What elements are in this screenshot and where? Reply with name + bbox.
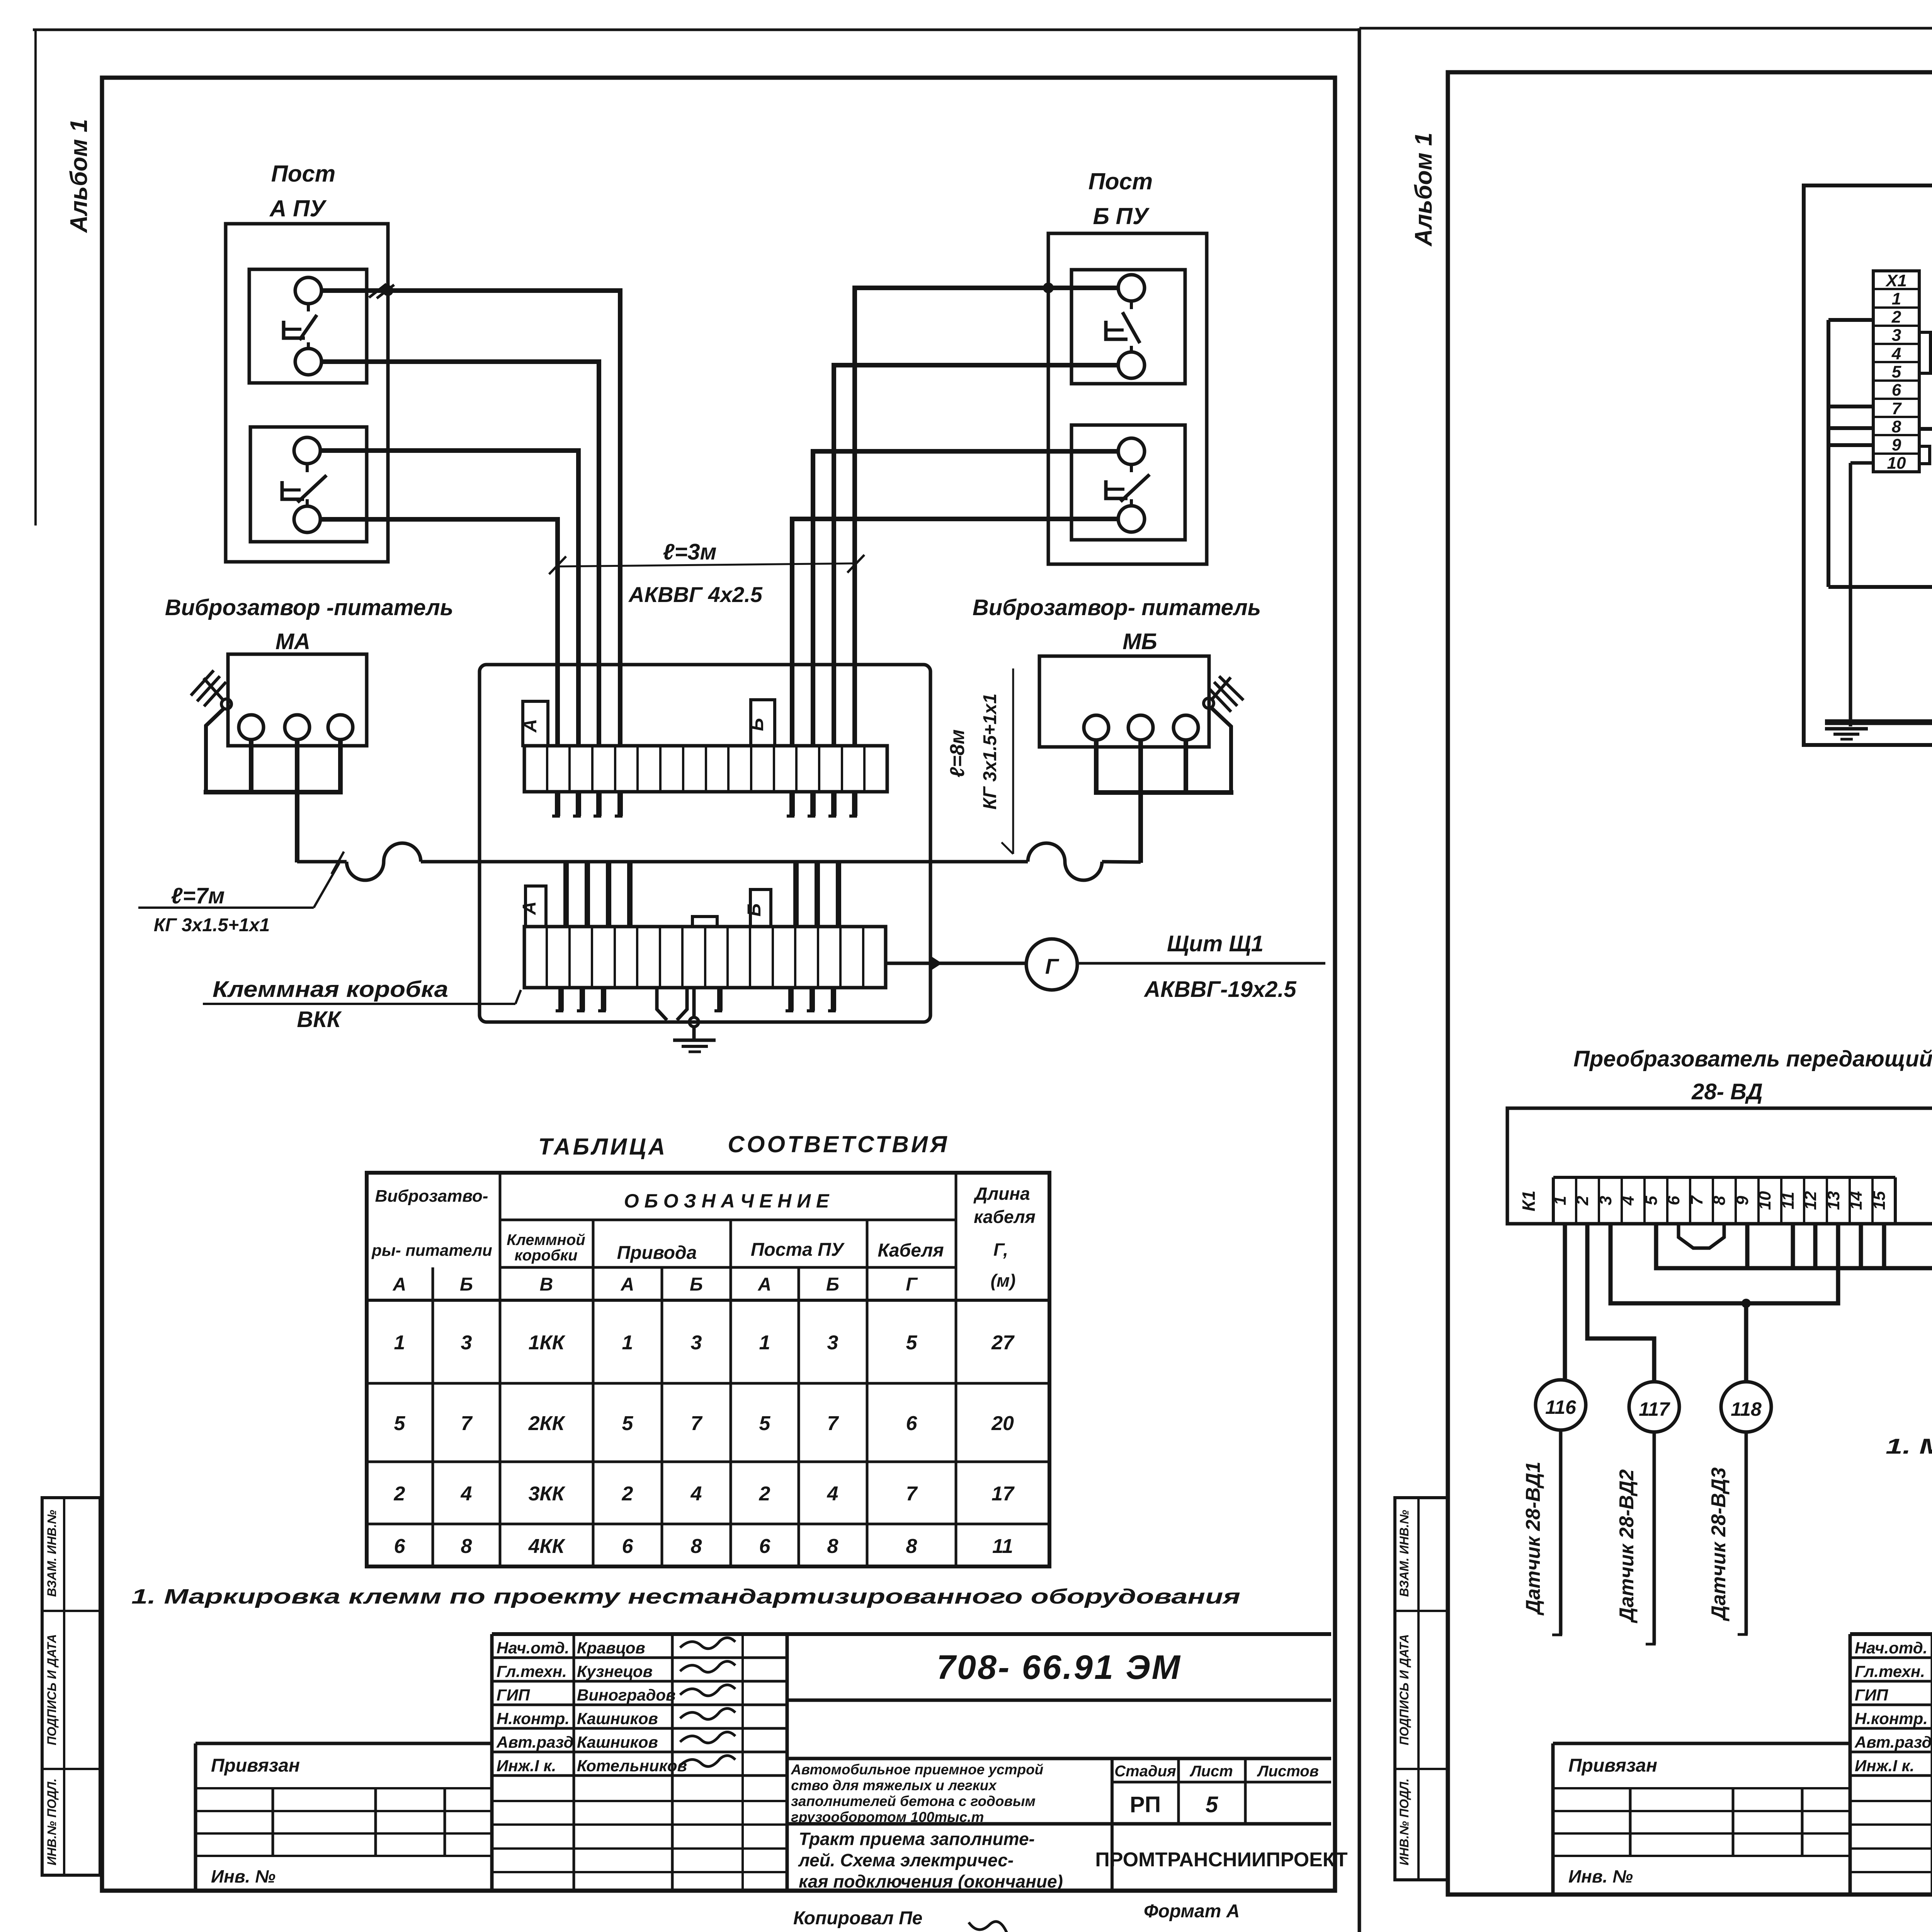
svg-text:9: 9: [1892, 435, 1901, 454]
svg-text:Стадия: Стадия: [1114, 1763, 1176, 1780]
svg-text:2: 2: [759, 1483, 770, 1505]
node : post B outer box: [1048, 233, 1207, 564]
node : title block main cells: [787, 1632, 1331, 1636]
svg-text:В: В: [540, 1274, 553, 1295]
svg-text:2: 2: [622, 1483, 633, 1505]
svg-text:АКВВГ-19х2.5: АКВВГ-19х2.5: [1143, 977, 1296, 1002]
node : junction post A box edge: [383, 285, 393, 296]
wire : post B wire 2: [834, 365, 1118, 746]
node 116 : sensor circle: [1536, 1380, 1586, 1430]
svg-text:Датчик 28-ВД2: Датчик 28-ВД2: [1616, 1469, 1638, 1624]
svg-text:Длина: Длина: [973, 1184, 1030, 1204]
svg-text:6: 6: [622, 1535, 634, 1558]
switch SB2 : post B button 2 box: [1071, 425, 1185, 540]
wire : pin2 to 117: [1587, 1224, 1654, 1382]
svg-text:Клеммной: Клеммной: [507, 1231, 585, 1248]
svg-text:Привязан: Привязан: [211, 1755, 300, 1776]
svg-text:4: 4: [461, 1483, 472, 1505]
svg-text:Гл.техн.: Гл.техн.: [1855, 1662, 1925, 1680]
svg-text:7: 7: [1892, 399, 1902, 418]
node : signatures: [680, 1638, 735, 1648]
svg-text:А: А: [519, 901, 540, 915]
svg-text:Тракт приема заполните-: Тракт приема заполните-: [799, 1829, 1035, 1849]
svg-text:Инв. №: Инв. №: [1568, 1866, 1633, 1886]
svg-text:27: 27: [991, 1332, 1015, 1354]
svg-text:10: 10: [1755, 1191, 1774, 1210]
svg-text:15: 15: [1870, 1191, 1889, 1210]
node : correspondence table grid: [367, 1173, 1049, 1566]
svg-text:5: 5: [1206, 1792, 1218, 1817]
wire : sensor 117 lead: [1653, 1432, 1656, 1644]
node : junction post B box edge: [1043, 282, 1054, 293]
svg-text:7: 7: [461, 1412, 473, 1435]
node 117 : sensor circle: [1629, 1382, 1679, 1432]
node : MB terminal 3: [1173, 715, 1198, 740]
motor MB : vibro gate feeder box: [1039, 656, 1209, 747]
node : terminal strip X1: [1873, 271, 1919, 472]
wire : pin3 and pin13 link: [1611, 1224, 1838, 1303]
svg-text:118: 118: [1731, 1398, 1762, 1420]
svg-text:ГИП: ГИП: [497, 1686, 530, 1704]
svg-text:Датчик 28-ВД3: Датчик 28-ВД3: [1708, 1468, 1730, 1622]
svg-text:5: 5: [622, 1412, 634, 1435]
svg-text:Инв. №: Инв. №: [211, 1866, 276, 1886]
node : SA1 contact top: [295, 277, 321, 304]
svg-text:ВЗАМ. ИНВ.№: ВЗАМ. ИНВ.№: [45, 1510, 59, 1597]
svg-text:Б: Б: [460, 1274, 473, 1295]
svg-text:Котельников: Котельников: [577, 1757, 687, 1775]
wire : sensor 116 lead: [1559, 1430, 1563, 1635]
svg-text:ры- питатели: ры- питатели: [371, 1241, 492, 1259]
switch SA1 : post A button 1 box: [249, 269, 367, 383]
svg-text:17: 17: [992, 1483, 1015, 1505]
svg-text:ℓ=7м: ℓ=7м: [171, 883, 225, 908]
wire : pin5 line to 115 riser: [1656, 1224, 1932, 1268]
wire : post B wire 4: [792, 519, 1118, 746]
svg-text:6: 6: [394, 1535, 406, 1558]
wire : link to 118: [1744, 1303, 1748, 1382]
svg-text:А: А: [520, 719, 541, 733]
switch SA1 : actuator symbol: [307, 304, 310, 311]
svg-text:6: 6: [1892, 381, 1901, 400]
svg-text:5: 5: [759, 1412, 771, 1435]
converter 28-VD : box: [1507, 1108, 1932, 1224]
svg-text:Привязан: Привязан: [1568, 1755, 1657, 1776]
svg-text:4КК: 4КК: [528, 1535, 566, 1558]
svg-text:Кашников: Кашников: [577, 1733, 658, 1751]
svg-text:Г: Г: [906, 1274, 918, 1295]
node : VKK lower terminal strip: [524, 927, 886, 988]
wire : ground feeder vertical: [1849, 463, 1852, 726]
wire : stub to X1 pin8: [1828, 426, 1873, 430]
svg-text:Н.контр.: Н.контр.: [497, 1709, 570, 1728]
node : SB1 contact top: [1118, 275, 1145, 301]
svg-text:5: 5: [1892, 362, 1901, 381]
svg-text:10: 10: [1887, 454, 1906, 473]
svg-text:Г: Г: [1045, 954, 1060, 978]
svg-text:ℓ=8м: ℓ=8м: [946, 730, 969, 778]
switch SB1 : actuator symbol: [1130, 301, 1133, 309]
wire : left paper edge: [34, 30, 37, 526]
svg-text:МБ: МБ: [1122, 629, 1157, 654]
svg-text:Поста ПУ: Поста ПУ: [751, 1240, 845, 1260]
node : privyazan box: [196, 1742, 492, 1745]
node : right sheet frame: [1448, 72, 1932, 1895]
wire : MB ground drop: [1211, 707, 1231, 793]
svg-text:Автомобильное приемное устрой: Автомобильное приемное устрой: [791, 1762, 1043, 1777]
wire : VKK ground stem: [692, 988, 696, 1018]
svg-text:Виброзатвор- питатель: Виброзатвор- питатель: [973, 595, 1261, 620]
svg-text:ПРОМТРАНСНИИПРОЕКТ: ПРОМТРАНСНИИПРОЕКТ: [1095, 1849, 1348, 1871]
svg-text:ПОДПИСЬ И ДАТА: ПОДПИСЬ И ДАТА: [1397, 1634, 1411, 1745]
node : SA1 contact bottom: [295, 349, 321, 375]
wire : upper strip lower fingers A: [555, 792, 560, 816]
svg-text:кая подключения (окончание): кая подключения (окончание): [799, 1871, 1063, 1891]
svg-text:Б: Б: [747, 718, 767, 731]
wire : earthing bus: [1825, 719, 1932, 725]
svg-text:20: 20: [991, 1412, 1014, 1435]
node : cable marker G circle: [1026, 939, 1077, 990]
svg-text:6: 6: [1664, 1196, 1683, 1205]
wire : post A wire 4: [320, 519, 558, 746]
svg-text:708- 66.91 ЭМ: 708- 66.91 ЭМ: [937, 1648, 1182, 1686]
wire : pin15 stub: [1882, 1224, 1886, 1268]
svg-text:1: 1: [622, 1332, 633, 1354]
svg-text:Кашников: Кашников: [577, 1709, 658, 1728]
svg-text:2: 2: [394, 1483, 405, 1505]
svg-text:АКВВГ 4х2.5: АКВВГ 4х2.5: [628, 582, 763, 607]
svg-text:заполнителей бетона с годовым: заполнителей бетона с годовым: [791, 1793, 1036, 1809]
wire : MA bottom bus: [204, 790, 343, 794]
svg-text:13: 13: [1824, 1191, 1843, 1210]
wire : MB bottom bus: [1094, 790, 1233, 795]
svg-text:Авт.разд: Авт.разд: [1854, 1733, 1932, 1751]
wire : post B wire 3: [813, 451, 1118, 746]
motor MA : vibro gate feeder box: [228, 654, 367, 746]
svg-text:7: 7: [1687, 1195, 1706, 1205]
wire : dimension line l=8m: [1012, 668, 1014, 854]
wire : X1 feeder vertical: [1827, 320, 1830, 587]
wire : MB trunk down: [1138, 793, 1143, 863]
svg-text:Кравцов: Кравцов: [577, 1639, 645, 1657]
svg-text:Б: Б: [826, 1274, 839, 1295]
svg-text:Альбом 1: Альбом 1: [1410, 133, 1437, 247]
svg-text:2КК: 2КК: [528, 1412, 566, 1435]
svg-text:Н.контр.: Н.контр.: [1855, 1709, 1928, 1728]
wire : pin14 stub: [1859, 1224, 1863, 1268]
svg-text:ℓ=3м: ℓ=3м: [663, 539, 717, 565]
svg-text:Х1: Х1: [1885, 271, 1907, 290]
svg-text:7: 7: [827, 1412, 839, 1435]
node : MA terminal 2: [285, 715, 310, 740]
svg-text:8: 8: [1892, 417, 1901, 436]
svg-text:1: 1: [394, 1332, 405, 1354]
svg-text:Лист: Лист: [1189, 1763, 1233, 1780]
svg-text:А ПУ: А ПУ: [269, 196, 327, 221]
svg-text:К1: К1: [1519, 1190, 1539, 1211]
wire : lower strip bottom finger mid: [717, 988, 723, 1011]
svg-text:А: А: [758, 1274, 772, 1295]
wire : middle scan divider: [1358, 28, 1361, 1932]
wire : MA trunk down: [295, 792, 299, 862]
svg-text:ство для тяжелых и легких: ство для тяжелых и легких: [791, 1777, 997, 1793]
node : SA2 contact top: [294, 437, 320, 464]
wire : post A wire 2: [321, 362, 599, 746]
svg-text:Формат А: Формат А: [1144, 1901, 1240, 1922]
svg-text:Виброзатво-: Виброзатво-: [375, 1187, 488, 1206]
svg-text:8: 8: [691, 1535, 702, 1558]
svg-text:Нач.отд.: Нач.отд.: [497, 1639, 569, 1657]
svg-text:Виброзатвор -питатель: Виброзатвор -питатель: [165, 595, 453, 620]
svg-text:Б: Б: [690, 1274, 703, 1295]
node : lower strip tab A: [526, 886, 546, 927]
node : title block small table: [1850, 1632, 1932, 1636]
svg-text:3: 3: [1892, 326, 1901, 345]
svg-text:ГИП: ГИП: [1855, 1686, 1888, 1704]
svg-text:Листов: Листов: [1257, 1763, 1319, 1780]
node : MA terminal 3: [328, 715, 353, 740]
svg-text:Клеммная коробка: Клеммная коробка: [213, 977, 448, 1002]
wire : lower strip upper fingers A: [563, 861, 569, 927]
svg-text:7: 7: [906, 1483, 918, 1505]
svg-text:Пост: Пост: [271, 161, 336, 187]
wire : post A wire 3: [320, 451, 578, 746]
wire : jumper pins 6-8: [1679, 1224, 1724, 1248]
svg-text:Г,: Г,: [993, 1240, 1008, 1260]
node : MB terminal 1: [1084, 715, 1109, 740]
svg-text:грузооборотом 100тыс.т: грузооборотом 100тыс.т: [791, 1809, 984, 1825]
svg-text:1. Маркировка клемм по прое: 1. Маркировка клемм по проекту нестандар…: [1886, 1434, 1932, 1458]
svg-text:(м): (м): [991, 1270, 1016, 1291]
svg-text:14: 14: [1847, 1191, 1866, 1210]
node : SB2 contact top: [1118, 438, 1145, 464]
node : upper strip tab B: [751, 700, 775, 746]
wire : pin9 stub: [1745, 1224, 1750, 1268]
svg-text:28- ВД: 28- ВД: [1691, 1079, 1763, 1104]
svg-text:коробки: коробки: [514, 1247, 577, 1264]
node : left sheet frame: [102, 78, 1335, 1891]
svg-text:КГ 3х1.5+1х1: КГ 3х1.5+1х1: [154, 915, 270, 935]
svg-text:3КК: 3КК: [529, 1483, 566, 1505]
wire : upper strip lower fingers B: [789, 792, 795, 816]
svg-text:А: А: [621, 1274, 634, 1295]
node : MB terminal 2: [1128, 715, 1153, 740]
svg-text:116: 116: [1545, 1396, 1577, 1418]
wire : horizontal link inside cabinet: [1828, 585, 1932, 589]
wire : lower strip to pilot lamp G: [886, 962, 1026, 965]
node : right margin stamp strip: [1395, 1498, 1448, 1880]
wire : lower strip fork symbol: [657, 988, 667, 1020]
svg-text:ВЗАМ. ИНВ.№: ВЗАМ. ИНВ.№: [1397, 1510, 1411, 1597]
switch SB1 : post B button 1 box: [1071, 270, 1185, 384]
svg-text:2: 2: [1573, 1196, 1592, 1206]
svg-text:ТАБЛИЦА: ТАБЛИЦА: [538, 1134, 667, 1160]
svg-text:3: 3: [827, 1332, 838, 1354]
node : VKK upper terminal strip: [524, 746, 887, 792]
wire : sensor 118 lead: [1745, 1432, 1748, 1634]
svg-text:5: 5: [394, 1412, 406, 1435]
svg-text:ИНВ.№ ПОДЛ.: ИНВ.№ ПОДЛ.: [1397, 1778, 1411, 1865]
svg-text:Пост: Пост: [1088, 168, 1153, 194]
svg-text:8: 8: [827, 1535, 838, 1558]
svg-text:ИНВ.№ ПОДЛ.: ИНВ.№ ПОДЛ.: [45, 1778, 59, 1865]
wire : post A wire 1: [321, 291, 620, 746]
wire : top scan edge right: [1359, 27, 1932, 30]
wire : X1 bracket pins 9-10: [1919, 446, 1930, 464]
wire : X1 pin8 to X2 pin5: [1919, 376, 1932, 429]
svg-text:5: 5: [1642, 1196, 1661, 1205]
node : MA terminal 1: [239, 715, 264, 740]
switch SA2 : actuator symbol: [306, 464, 309, 472]
svg-text:3: 3: [1596, 1196, 1615, 1205]
wire : VKK label underline: [203, 1003, 515, 1005]
svg-text:4: 4: [690, 1483, 702, 1505]
svg-text:Щит Щ1: Щит Щ1: [1167, 931, 1264, 956]
svg-text:1КК: 1КК: [529, 1332, 566, 1354]
node : title block small table: [492, 1632, 787, 1636]
svg-text:Альбом 1: Альбом 1: [66, 119, 92, 233]
svg-text:РП: РП: [1130, 1792, 1161, 1817]
node 118 : sensor circle: [1721, 1382, 1771, 1432]
node : post A outer box: [226, 224, 388, 562]
svg-text:8: 8: [461, 1535, 472, 1558]
wire : underline and leader l=7m: [138, 906, 314, 909]
wire : lower strip small stub: [692, 917, 717, 927]
node : SB2 contact bottom: [1118, 506, 1145, 532]
ground : cabinet earth under bus: [1825, 727, 1868, 731]
svg-text:3: 3: [461, 1332, 472, 1354]
svg-text:кабеля: кабеля: [974, 1207, 1036, 1227]
svg-text:МА: МА: [276, 629, 310, 654]
wire : lower strip bottom fingers B: [788, 988, 794, 1011]
svg-text:2: 2: [1891, 308, 1901, 327]
svg-text:8: 8: [1710, 1196, 1729, 1205]
svg-text:3: 3: [691, 1332, 702, 1354]
svg-text:1: 1: [1892, 289, 1901, 308]
svg-text:5: 5: [906, 1332, 918, 1354]
svg-text:4: 4: [827, 1483, 838, 1505]
svg-text:О Б О З Н А Ч Е Н И Е: О Б О З Н А Ч Е Н И Е: [624, 1190, 830, 1212]
wire : pin12 stub: [1813, 1224, 1818, 1268]
svg-text:Авт.разд: Авт.разд: [496, 1733, 573, 1751]
svg-text:Б ПУ: Б ПУ: [1093, 203, 1150, 229]
svg-text:ВКК: ВКК: [297, 1007, 342, 1032]
wire : pin11 stub: [1791, 1224, 1795, 1268]
node : SA2 contact bottom: [294, 506, 320, 532]
node : SB1 contact bottom: [1118, 352, 1145, 378]
svg-text:Кузнецов: Кузнецов: [577, 1662, 653, 1680]
svg-text:Преобразователь передающий: Преобразователь передающий: [1573, 1046, 1932, 1071]
svg-text:4: 4: [1891, 344, 1901, 363]
wire : X1 bracket pins 3-5: [1919, 332, 1930, 373]
wire : stub to X1 pin7: [1828, 405, 1873, 408]
svg-text:Инж.I к.: Инж.I к.: [497, 1757, 556, 1775]
node : terminal strip K1: [1553, 1176, 1895, 1179]
svg-text:лей. Схема электричес-: лей. Схема электричес-: [798, 1850, 1014, 1870]
svg-text:Б: Б: [744, 903, 765, 917]
svg-text:КГ 3х1.5+1х1: КГ 3х1.5+1х1: [980, 694, 1000, 810]
node : VKK junction box outline: [480, 665, 930, 1022]
svg-text:Гл.техн.: Гл.техн.: [497, 1662, 567, 1680]
svg-text:7: 7: [691, 1412, 703, 1435]
svg-text:А: А: [393, 1274, 406, 1295]
wire : cable dimension line l=3m: [557, 563, 856, 566]
wire : stub to X1 pin2: [1828, 318, 1873, 322]
node : privyazan box: [1553, 1742, 1849, 1745]
svg-text:8: 8: [906, 1535, 917, 1558]
svg-text:1: 1: [759, 1332, 770, 1354]
svg-text:Нач.отд.: Нач.отд.: [1855, 1639, 1927, 1657]
wire : lower strip upper fingers B: [793, 861, 799, 927]
wire : cable run MA to VKK to MB: [297, 860, 347, 864]
svg-text:Датчик 28-ВД1: Датчик 28-ВД1: [1522, 1462, 1544, 1616]
wire : stub to X1 pin9: [1828, 443, 1873, 447]
svg-text:6: 6: [759, 1535, 771, 1558]
svg-text:Копировал Пе: Копировал Пе: [793, 1908, 922, 1929]
svg-text:1. Маркировка клемм по прое: 1. Маркировка клемм по проекту нестандар…: [131, 1585, 1240, 1608]
wire : pin1 to 116: [1563, 1224, 1567, 1380]
wire : top scan edge left: [33, 29, 1359, 31]
ground : MA earth contact: [221, 699, 231, 709]
wire : G to shield line: [1077, 962, 1325, 965]
svg-text:ПОДПИСЬ И ДАТА: ПОДПИСЬ И ДАТА: [45, 1634, 59, 1745]
svg-text:6: 6: [906, 1412, 918, 1435]
wire : MB terminal drops: [1094, 740, 1099, 794]
ground : MB earth contact: [1204, 698, 1214, 708]
svg-text:12: 12: [1801, 1191, 1820, 1210]
switch SA2 : post A button 2 box: [250, 427, 367, 542]
node : left margin stamp strip: [42, 1498, 100, 1875]
wire : post B wire 1: [855, 288, 1118, 746]
svg-text:11: 11: [1779, 1192, 1798, 1209]
svg-text:Инж.I к.: Инж.I к.: [1855, 1757, 1914, 1775]
svg-text:11: 11: [992, 1535, 1013, 1558]
svg-text:Кабеля: Кабеля: [878, 1240, 944, 1261]
svg-text:СООТВЕТСТВИЯ: СООТВЕТСТВИЯ: [728, 1131, 949, 1157]
wire : lower strip bottom fingers A: [558, 988, 564, 1011]
svg-text:1: 1: [1551, 1196, 1570, 1205]
svg-text:Виноградов: Виноградов: [577, 1686, 675, 1704]
switch SB2 : actuator symbol: [1130, 464, 1133, 472]
svg-text:9: 9: [1733, 1196, 1752, 1205]
node : lower strip tab B: [750, 889, 771, 927]
ground : VKK earth: [673, 1039, 716, 1042]
node : cabinet outline: [1804, 185, 1932, 745]
svg-text:4: 4: [1619, 1196, 1638, 1206]
svg-text:Привода: Привода: [617, 1243, 697, 1263]
wire : MA ground drop: [206, 708, 224, 792]
svg-text:117: 117: [1639, 1398, 1670, 1420]
wire : MA terminal drops: [249, 740, 253, 794]
node : upper strip tab A: [523, 701, 548, 746]
